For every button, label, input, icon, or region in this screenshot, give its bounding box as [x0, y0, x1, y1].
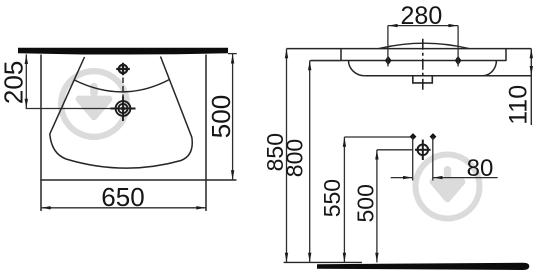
bowl inner back curve	[74, 80, 169, 92]
apron bottom line	[365, 75, 531, 77]
dim 800 arrows	[308, 61, 311, 262]
dim 280 arrows	[388, 24, 458, 27]
dim 550 top leader	[344, 136, 412, 138]
floor bar (solid black)	[317, 263, 529, 270]
bowl silhouette	[50, 57, 192, 169]
dim 500R arrows	[375, 150, 378, 262]
mounting hole diamond left	[385, 56, 392, 66]
supply crosshair symbol	[415, 140, 431, 160]
svg-text:110: 110	[505, 85, 533, 125]
extension line from left bolt	[412, 137, 414, 181]
dim 80 arrows	[403, 176, 443, 179]
rim right end cap	[505, 49, 507, 61]
centerline (dash-dot)	[422, 39, 424, 90]
centerline between holes (dashed)	[122, 78, 124, 97]
rim bottom line	[311, 60, 506, 62]
overflow hole target (concentric circles)	[121, 106, 125, 110]
dim 850 arrows	[285, 49, 288, 262]
svg-text:800: 800	[282, 139, 308, 177]
svg-text:280: 280	[401, 2, 443, 30]
dim 550 line	[343, 137, 345, 262]
dim 80 left segment	[391, 177, 413, 179]
mounting hole diamond right	[455, 56, 462, 66]
watermark left	[58, 68, 130, 140]
dim 280 line	[388, 25, 458, 27]
extension line from right bolt	[432, 137, 434, 181]
svg-text:650: 650	[101, 182, 144, 212]
dim 110 line (on right edge)	[530, 49, 532, 125]
watermark right	[413, 152, 483, 222]
tap hole mark (small cross-circle)	[116, 63, 130, 75]
right wing fillet	[483, 61, 496, 76]
dim 800 top leader	[310, 60, 341, 62]
dim 80 right segment	[433, 177, 498, 179]
dim 650 arrows	[41, 206, 206, 209]
svg-text:550: 550	[319, 179, 345, 217]
basin left edge	[40, 55, 42, 212]
left wing fillet	[349, 61, 365, 76]
fixing bolt diamond right (lower)	[430, 133, 437, 140]
drain box	[413, 76, 433, 83]
rim back bump arc	[379, 43, 469, 48]
dim 280 extension right	[457, 26, 459, 67]
dim 500R top leader	[377, 149, 413, 151]
dim 205 line	[25, 54, 27, 108]
top surface line	[287, 48, 532, 50]
dim 280 extension left	[387, 26, 389, 67]
rim left end cap	[340, 49, 342, 61]
dim 500L arrows	[231, 54, 234, 180]
svg-text:500: 500	[353, 184, 379, 222]
rim bar (top edge seen edge-on, solid black)	[18, 48, 228, 55]
svg-text:205: 205	[0, 61, 29, 104]
dim 850 line	[286, 49, 288, 263]
svg-text:80: 80	[467, 155, 494, 182]
dim 500R line	[376, 150, 378, 263]
fixing bolt diamond left (lower)	[410, 133, 417, 140]
basin right edge	[205, 55, 207, 212]
dim 500L top extension	[228, 53, 237, 55]
floor thin line	[284, 261, 362, 263]
dim 650 line	[41, 207, 206, 209]
dim 550 arrows	[343, 137, 346, 262]
dim 205 arrows	[25, 55, 28, 109]
dim 205 leader line	[26, 108, 111, 110]
svg-text:500: 500	[206, 95, 236, 138]
dim 500L line	[232, 54, 234, 180]
dim 800 line	[309, 61, 311, 263]
dim 110 arrows	[530, 49, 533, 76]
basin bottom edge	[40, 179, 236, 181]
